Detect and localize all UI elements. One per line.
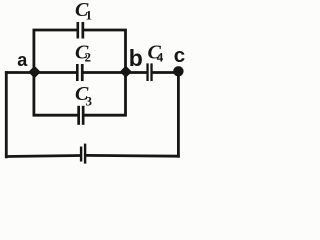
capacitor C2 plates (middle branch) [76, 64, 79, 81]
wire: middle segment from C2 right plate to node b [84, 71, 126, 74]
svg-text:3: 3 [86, 94, 93, 109]
svg-text:2: 2 [85, 50, 92, 65]
wire: top-right segment from C1 right plate down to node b [84, 30, 125, 73]
node c junction dot [173, 66, 183, 76]
wire: bottom rail left segment to bottom capacitor [6, 156, 80, 157]
capacitor (unlabeled, bottom source branch) plates [80, 147, 82, 162]
capacitor C4 plates (between b and c) [146, 63, 148, 81]
wire: left outer column from middle rail down to bottom rail [5, 73, 8, 157]
svg-text:1: 1 [86, 8, 93, 23]
svg-text:c: c [174, 44, 185, 67]
node a junction dot [28, 66, 40, 78]
wire: from C3 right plate to vertical under node b [84, 73, 125, 116]
svg-text:b: b [129, 45, 143, 71]
wire: from node a down to C3 rail and to C3 left plate [34, 73, 77, 116]
wire: middle rail from left column through node a to C2 left plate [6, 71, 76, 74]
wire: right outer column from node c down to bottom rail [177, 73, 180, 157]
svg-text:4: 4 [157, 50, 164, 65]
node b junction dot [120, 66, 132, 78]
wire: top-left segment from corner above node a to C1 left plate [34, 30, 77, 73]
capacitor C1 plates (top branch) [77, 22, 80, 39]
wire: segment from C4 right plate to node c [153, 71, 179, 74]
capacitor C3 plates (lower inner branch) [77, 106, 80, 125]
wire: bottom rail right segment from bottom capacitor to right column [86, 154, 178, 158]
svg-text:a: a [17, 50, 28, 70]
wire: middle segment from node b to C4 left plate [126, 71, 147, 74]
